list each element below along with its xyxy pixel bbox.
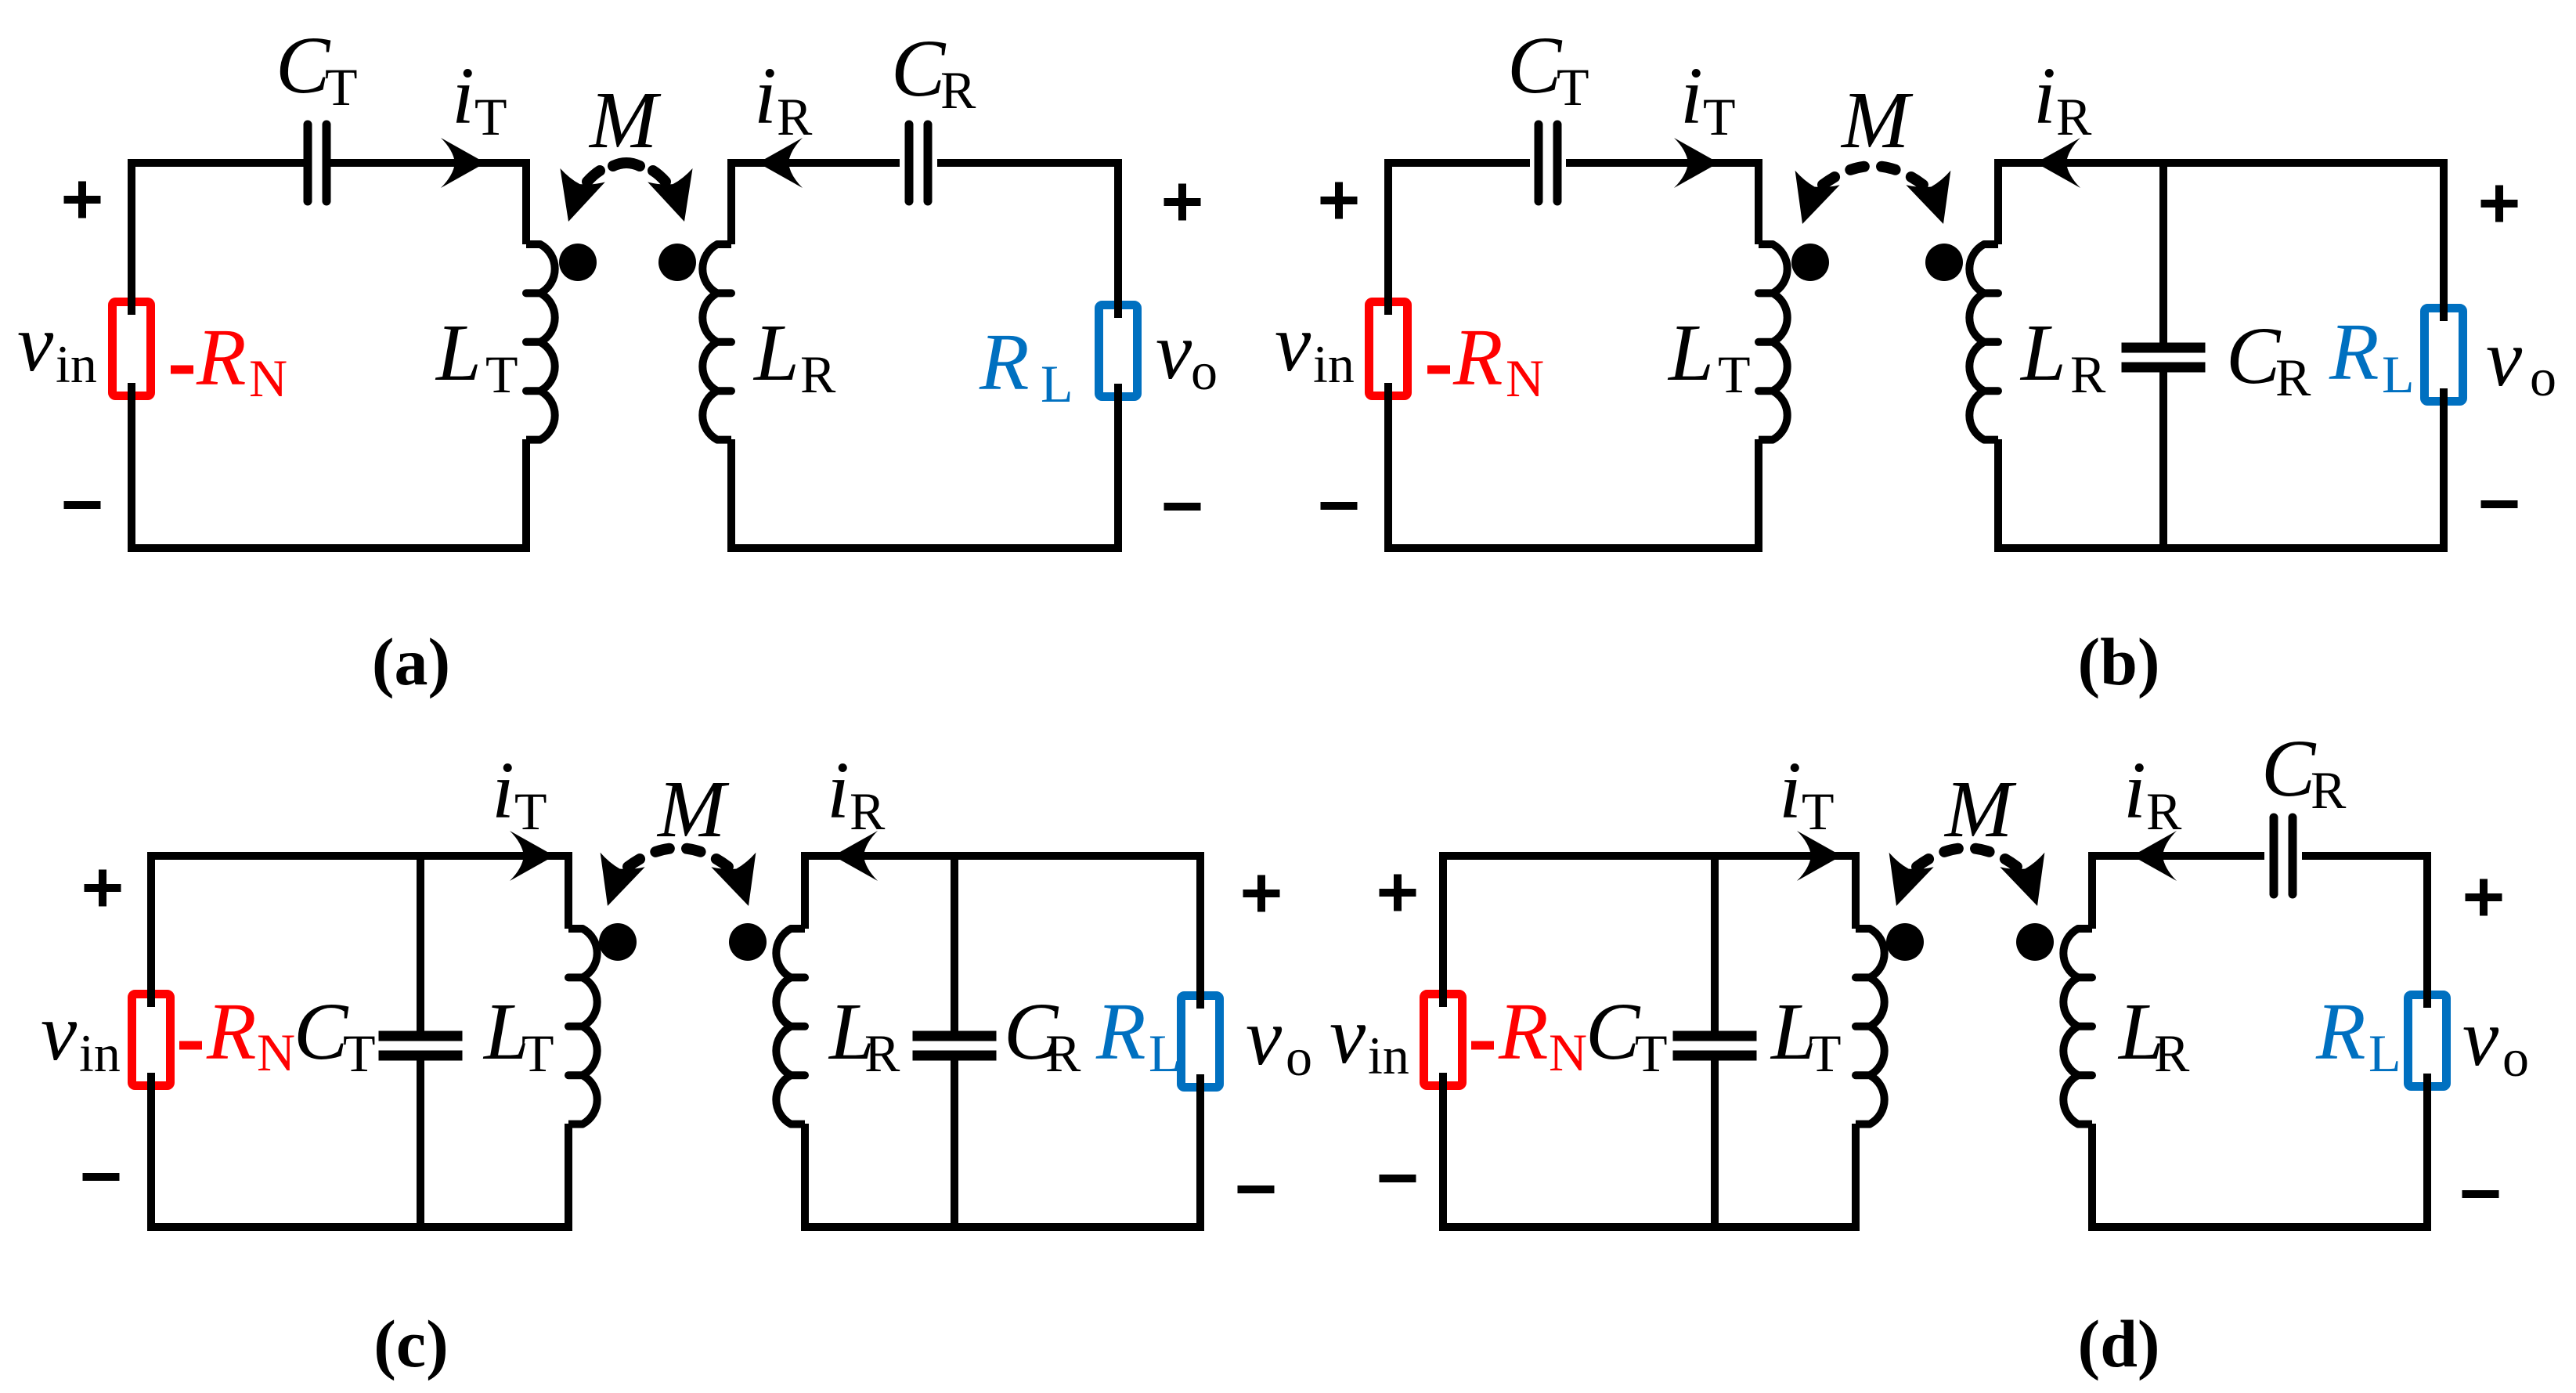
svg-text:R: R — [2329, 307, 2379, 397]
svg-text:R: R — [850, 781, 886, 841]
svg-text:N: N — [257, 1023, 295, 1082]
svg-text:o: o — [2502, 1028, 2529, 1088]
svg-text:v: v — [1329, 991, 1366, 1081]
svg-text:L: L — [1149, 1023, 1182, 1083]
svg-text:T: T — [1557, 57, 1589, 117]
svg-text:T: T — [514, 781, 547, 841]
svg-text:in: in — [1368, 1026, 1409, 1085]
svg-text:i: i — [452, 51, 474, 141]
svg-text:o: o — [1191, 341, 1218, 401]
svg-text:(d): (d) — [2077, 1306, 2159, 1381]
svg-text:i: i — [1779, 745, 1802, 835]
svg-text:N: N — [1506, 348, 1544, 408]
svg-text:R: R — [2275, 348, 2311, 407]
svg-text:(a): (a) — [372, 624, 450, 699]
svg-text:o: o — [1286, 1027, 1312, 1087]
svg-text:C: C — [1586, 987, 1641, 1077]
svg-text:i: i — [754, 51, 777, 141]
svg-text:i: i — [2123, 745, 2146, 835]
svg-text:R: R — [940, 60, 976, 120]
svg-text:R: R — [196, 312, 247, 402]
svg-text:T: T — [474, 87, 507, 146]
svg-text:o: o — [2530, 348, 2556, 407]
svg-text:in: in — [56, 334, 97, 394]
svg-text:v: v — [2486, 313, 2523, 403]
svg-text:v: v — [17, 298, 54, 388]
svg-text:C: C — [2261, 724, 2317, 814]
svg-text:T: T — [1635, 1023, 1668, 1083]
svg-text:R: R — [800, 345, 836, 404]
svg-text:R: R — [2315, 987, 2366, 1077]
svg-text:T: T — [1809, 1023, 1842, 1083]
svg-text:L: L — [1667, 308, 1714, 398]
svg-text:N: N — [1549, 1023, 1587, 1082]
svg-text:M: M — [1943, 764, 2017, 854]
svg-text:v: v — [1156, 306, 1192, 396]
svg-text:R: R — [1045, 1023, 1081, 1083]
svg-text:R: R — [206, 987, 257, 1077]
svg-text:i: i — [827, 745, 850, 835]
svg-text:R: R — [2070, 345, 2106, 404]
svg-text:v: v — [41, 987, 78, 1077]
svg-text:L: L — [2019, 308, 2066, 398]
svg-text:N: N — [249, 348, 287, 408]
svg-text:C: C — [1507, 20, 1563, 110]
svg-text:M: M — [656, 764, 730, 854]
svg-text:R: R — [1095, 987, 1146, 1077]
svg-text:L: L — [2369, 1023, 2401, 1083]
svg-text:(b): (b) — [2077, 624, 2159, 699]
svg-text:i: i — [1680, 51, 1703, 141]
svg-text:T: T — [325, 57, 358, 117]
svg-text:v: v — [1275, 298, 1311, 388]
svg-text:C: C — [276, 20, 331, 110]
svg-text:C: C — [891, 23, 947, 114]
svg-text:R: R — [979, 317, 1030, 407]
svg-text:C: C — [294, 987, 349, 1077]
svg-text:T: T — [1802, 781, 1835, 841]
svg-text:L: L — [435, 308, 482, 398]
svg-text:R: R — [1452, 312, 1503, 402]
svg-text:M: M — [588, 75, 662, 165]
svg-text:T: T — [343, 1023, 376, 1083]
svg-text:T: T — [485, 345, 518, 404]
svg-text:R: R — [2146, 781, 2182, 841]
svg-text:C: C — [2226, 311, 2282, 401]
svg-text:i: i — [492, 745, 514, 835]
svg-text:v: v — [1246, 992, 1283, 1082]
svg-text:T: T — [521, 1023, 554, 1083]
svg-text:R: R — [2056, 87, 2092, 146]
svg-text:(c): (c) — [373, 1306, 448, 1381]
svg-text:i: i — [2033, 51, 2056, 141]
svg-text:R: R — [2154, 1023, 2190, 1083]
svg-text:R: R — [864, 1023, 900, 1083]
svg-text:R: R — [2311, 760, 2347, 820]
svg-text:R: R — [777, 87, 813, 146]
svg-text:L: L — [1041, 354, 1073, 413]
svg-text:L: L — [2382, 345, 2415, 404]
svg-text:v: v — [2462, 993, 2499, 1083]
svg-text:M: M — [1840, 75, 1914, 165]
svg-text:in: in — [79, 1023, 121, 1083]
svg-text:T: T — [1718, 345, 1751, 404]
svg-text:R: R — [1498, 987, 1549, 1077]
svg-text:T: T — [1703, 87, 1736, 146]
svg-text:L: L — [752, 308, 799, 398]
svg-text:in: in — [1313, 334, 1355, 394]
